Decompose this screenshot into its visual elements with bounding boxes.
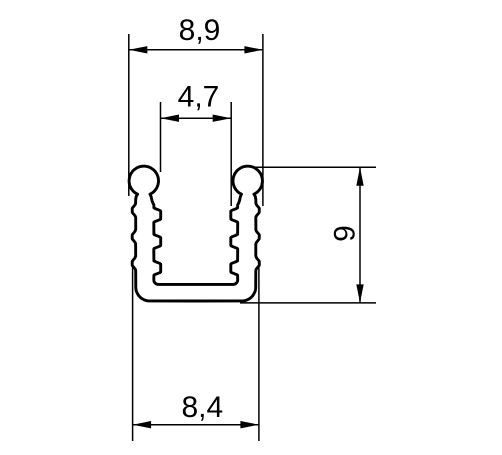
dimension 9 : extension line top	[252, 166, 376, 168]
dimension 8,9 : left arrowhead	[129, 46, 148, 53]
dimension 4,7 : right arrowhead	[213, 115, 232, 122]
svg-text:9: 9	[328, 225, 361, 242]
dimension 8,9 : right arrowhead	[244, 46, 263, 53]
dimension 8,4 : left arrowhead	[133, 421, 152, 428]
dimension 8,9 : dimension line	[129, 49, 263, 51]
dimension 9 : dimension line	[359, 167, 361, 303]
dimension 8,9 : extension line right	[262, 34, 264, 206]
aluminium U-channel profile cross-section outline	[129, 166, 262, 301]
dimension 4,7 : extension line left	[160, 102, 162, 172]
dimension 8,4 : extension line left	[132, 266, 134, 441]
svg-text:8,4: 8,4	[181, 391, 223, 424]
svg-text:8,9: 8,9	[179, 14, 221, 47]
dimension 8,4 : dimension line	[133, 424, 259, 426]
dimension 8,9 : extension line left	[128, 34, 130, 196]
dimension 8,4 : extension line right	[258, 266, 260, 441]
dimension 4,7 : dimension line	[161, 117, 232, 119]
dimension 4,7 : extension line right	[230, 102, 232, 206]
dimension 8,4 : right arrowhead	[240, 421, 259, 428]
dimension 9 : top arrowhead	[356, 167, 363, 186]
dimension 9 : bottom arrowhead	[356, 284, 363, 303]
svg-text:4,7: 4,7	[178, 81, 220, 114]
dimension 9 : extension line bottom	[240, 302, 376, 304]
dimension 4,7 : left arrowhead	[161, 115, 180, 122]
